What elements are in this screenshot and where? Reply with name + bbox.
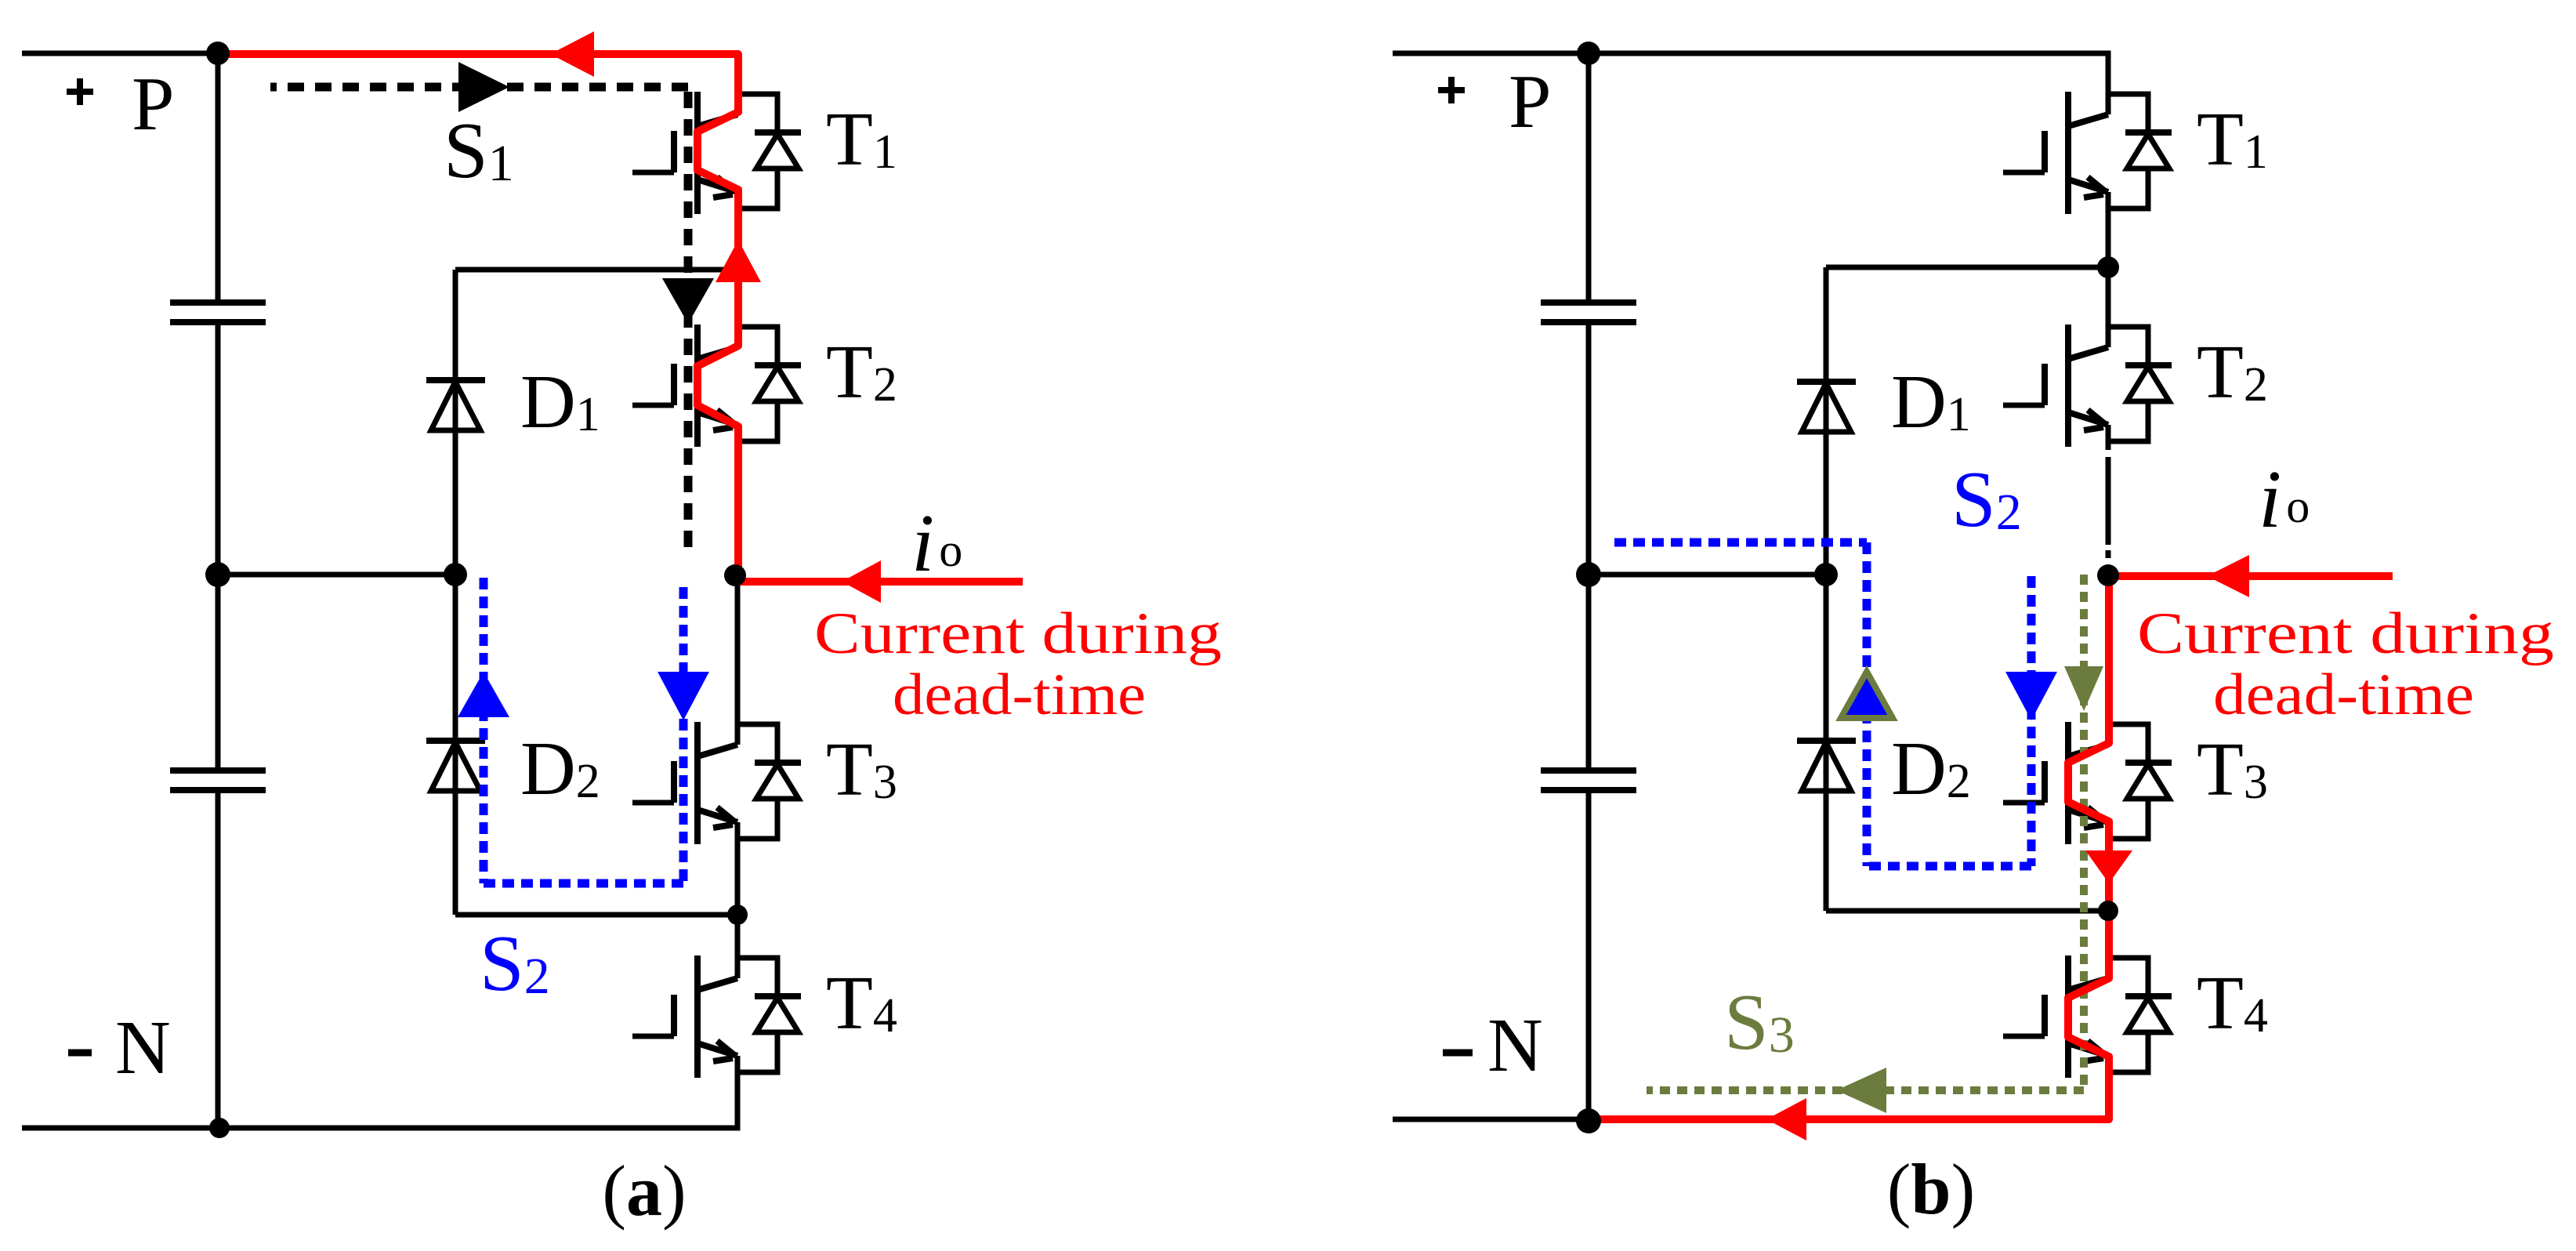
- svg-text:(b): (b): [1887, 1149, 1975, 1229]
- svg-text:S2: S2: [1951, 455, 2022, 544]
- svg-text:dead-time: dead-time: [893, 662, 1146, 727]
- svg-text:D1: D1: [1891, 360, 1971, 444]
- svg-text:P: P: [132, 62, 175, 147]
- svg-text:N: N: [1487, 1003, 1543, 1088]
- svg-text:(a): (a): [602, 1151, 686, 1231]
- svg-text:T2: T2: [2197, 330, 2268, 415]
- svg-text:Current during: Current during: [814, 601, 1222, 666]
- svg-text:D2: D2: [520, 727, 600, 811]
- svg-text:S3: S3: [1724, 978, 1795, 1067]
- svg-text:S2: S2: [480, 919, 550, 1008]
- svg-text:T3: T3: [826, 727, 897, 812]
- svg-text:D2: D2: [1891, 727, 1971, 811]
- svg-text:N: N: [115, 1006, 171, 1090]
- svg-text:T3: T3: [2197, 727, 2268, 812]
- svg-text:dead-time: dead-time: [2213, 662, 2474, 727]
- svg-text:T4: T4: [2197, 961, 2268, 1046]
- svg-text:D1: D1: [520, 360, 600, 444]
- svg-text:io: io: [911, 497, 962, 589]
- svg-text:T1: T1: [2197, 97, 2268, 182]
- svg-text:T2: T2: [826, 330, 897, 415]
- svg-text:P: P: [1509, 60, 1552, 144]
- svg-text:S1: S1: [444, 107, 514, 195]
- svg-text:T1: T1: [826, 97, 897, 182]
- svg-text:io: io: [2259, 453, 2310, 545]
- svg-text:Current during: Current during: [2137, 601, 2554, 666]
- svg-text:T4: T4: [826, 961, 897, 1046]
